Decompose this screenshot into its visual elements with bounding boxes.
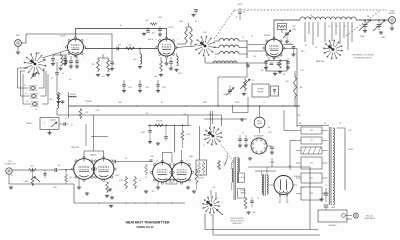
- svg-text:500K: 500K: [53, 187, 57, 189]
- svg-text:X2: X2: [25, 93, 27, 95]
- svg-text:.005: .005: [260, 70, 263, 72]
- svg-text:6CL6: 6CL6: [60, 36, 66, 38]
- svg-text:GRN: GRN: [298, 123, 301, 125]
- svg-text:365: 365: [383, 20, 386, 22]
- svg-text:47: 47: [251, 36, 253, 38]
- svg-text:.005: .005: [128, 87, 132, 89]
- svg-text:SOCKET: SOCKET: [256, 138, 263, 140]
- svg-text:.005: .005: [151, 33, 154, 35]
- svg-text:SEE: SEE: [42, 59, 45, 61]
- svg-text:NE-51: NE-51: [257, 121, 262, 123]
- svg-text:10: 10: [263, 102, 265, 104]
- svg-text:10: 10: [210, 215, 212, 217]
- svg-text:L4: L4: [310, 15, 312, 17]
- svg-text:15: 15: [344, 26, 346, 28]
- svg-text:B+ 600: B+ 600: [270, 162, 275, 164]
- svg-text:.01: .01: [125, 158, 127, 160]
- svg-text:1K: 1K: [145, 177, 147, 179]
- svg-text:220: 220: [283, 74, 286, 76]
- svg-text:115V: 115V: [268, 132, 271, 134]
- svg-text:YEL: YEL: [324, 123, 327, 125]
- svg-text:117V: 117V: [300, 187, 303, 189]
- svg-text:TO T3: TO T3: [300, 70, 304, 72]
- svg-text:12: 12: [203, 145, 205, 147]
- svg-text:.005: .005: [162, 87, 166, 89]
- svg-text:RED: RED: [289, 166, 292, 168]
- svg-text:T1: T1: [227, 153, 229, 155]
- svg-text:100: 100: [112, 64, 115, 66]
- svg-text:IN RFO POSITION: IN RFO POSITION: [230, 221, 244, 223]
- svg-text:X4: X4: [35, 109, 37, 111]
- svg-text:SOCKET: SOCKET: [389, 13, 396, 15]
- svg-text:40: 40: [328, 26, 330, 28]
- svg-text:TUNE: TUNE: [360, 36, 364, 38]
- svg-text:TO PIN 7: TO PIN 7: [168, 27, 174, 29]
- svg-text:LINE MFC: LINE MFC: [329, 225, 338, 227]
- svg-text:TO GRID: TO GRID: [240, 190, 246, 192]
- svg-text:12AX7: 12AX7: [90, 154, 97, 157]
- svg-text:820: 820: [152, 191, 155, 193]
- svg-text:.01: .01: [70, 125, 72, 127]
- svg-text:.005: .005: [69, 79, 72, 81]
- svg-text:NOTE: NOTE: [238, 4, 242, 6]
- svg-text:KEY: KEY: [183, 114, 186, 116]
- svg-text:10W: 10W: [292, 29, 296, 31]
- svg-text:SWITCH SHOWN: SWITCH SHOWN: [231, 218, 245, 220]
- svg-text:6DE7: 6DE7: [169, 182, 174, 184]
- svg-text:T2: T2: [257, 198, 259, 200]
- svg-text:T3: T3: [339, 123, 341, 125]
- svg-text:GREEN: GREEN: [241, 193, 246, 195]
- svg-text:22K 1W: 22K 1W: [156, 121, 162, 123]
- svg-text:.005: .005: [101, 76, 105, 78]
- svg-text:J1: J1: [11, 175, 13, 177]
- svg-text:100: 100: [129, 45, 132, 47]
- svg-text:47: 47: [236, 17, 238, 19]
- svg-text:.01: .01: [65, 118, 67, 120]
- svg-text:470K: 470K: [115, 175, 119, 177]
- svg-text:250V: 250V: [297, 115, 301, 117]
- svg-text:ON: ON: [268, 127, 270, 129]
- svg-text:47: 47: [242, 133, 244, 135]
- svg-text:40: 40: [315, 47, 317, 49]
- svg-text:47: 47: [62, 73, 64, 75]
- svg-text:.005 .005: .005 .005: [272, 57, 279, 59]
- svg-text:HV PWR: HV PWR: [257, 89, 264, 91]
- svg-text:47K: 47K: [213, 187, 216, 189]
- svg-text:220K: 220K: [150, 156, 154, 158]
- svg-text:HEATHKIT TRANSMITTER: HEATHKIT TRANSMITTER: [125, 220, 170, 224]
- svg-text:100: 100: [254, 56, 257, 58]
- svg-text:L2: L2: [231, 45, 233, 47]
- svg-text:5U4GB: 5U4GB: [294, 176, 301, 178]
- svg-text:B+: B+: [120, 25, 122, 27]
- svg-text:.001: .001: [288, 43, 291, 45]
- svg-text:6.3V: 6.3V: [95, 110, 98, 112]
- svg-text:.005: .005: [145, 87, 149, 89]
- svg-text:.001: .001: [117, 45, 121, 47]
- svg-text:B+: B+: [209, 114, 211, 116]
- svg-text:10UF: 10UF: [141, 132, 145, 134]
- svg-text:METER: METER: [258, 92, 264, 94]
- svg-text:X1: X1: [24, 85, 26, 87]
- svg-text:10: 10: [351, 26, 353, 28]
- svg-text:RELAY: RELAY: [70, 93, 76, 96]
- svg-text:250: 250: [367, 16, 370, 18]
- svg-text:.01: .01: [325, 185, 327, 187]
- svg-text:NEON: NEON: [257, 123, 261, 125]
- svg-text:47: 47: [51, 78, 53, 80]
- svg-text:470: 470: [58, 165, 61, 167]
- svg-text:6DQ6: 6DQ6: [264, 35, 270, 37]
- svg-text:TUNE: TUNE: [235, 102, 239, 104]
- svg-text:L1: L1: [242, 37, 244, 39]
- svg-text:B+: B+: [161, 102, 163, 104]
- svg-text:IN 80 METER POSITION: IN 80 METER POSITION: [354, 58, 373, 60]
- svg-text:M1: M1: [252, 80, 254, 82]
- svg-text:BAND SW: BAND SW: [316, 60, 324, 63]
- svg-text:XTAL: XTAL: [36, 52, 40, 55]
- svg-text:6.8K: 6.8K: [285, 81, 288, 83]
- svg-text:.005: .005: [154, 76, 158, 78]
- svg-text:MODEL DX-40: MODEL DX-40: [137, 226, 154, 229]
- svg-text:BLUE: BLUE: [241, 177, 245, 179]
- svg-text:20: 20: [336, 26, 338, 28]
- svg-text:CONNECTOR: CONNECTOR: [5, 164, 17, 166]
- svg-text:X3: X3: [26, 101, 28, 103]
- svg-text:50K 7W: 50K 7W: [198, 178, 204, 180]
- svg-text:1 MEG: 1 MEG: [24, 181, 30, 183]
- svg-text:FUSE: FUSE: [331, 207, 335, 209]
- svg-text:6CL6: 6CL6: [148, 39, 154, 41]
- svg-text:L3: L3: [231, 52, 233, 54]
- svg-text:80: 80: [305, 45, 307, 47]
